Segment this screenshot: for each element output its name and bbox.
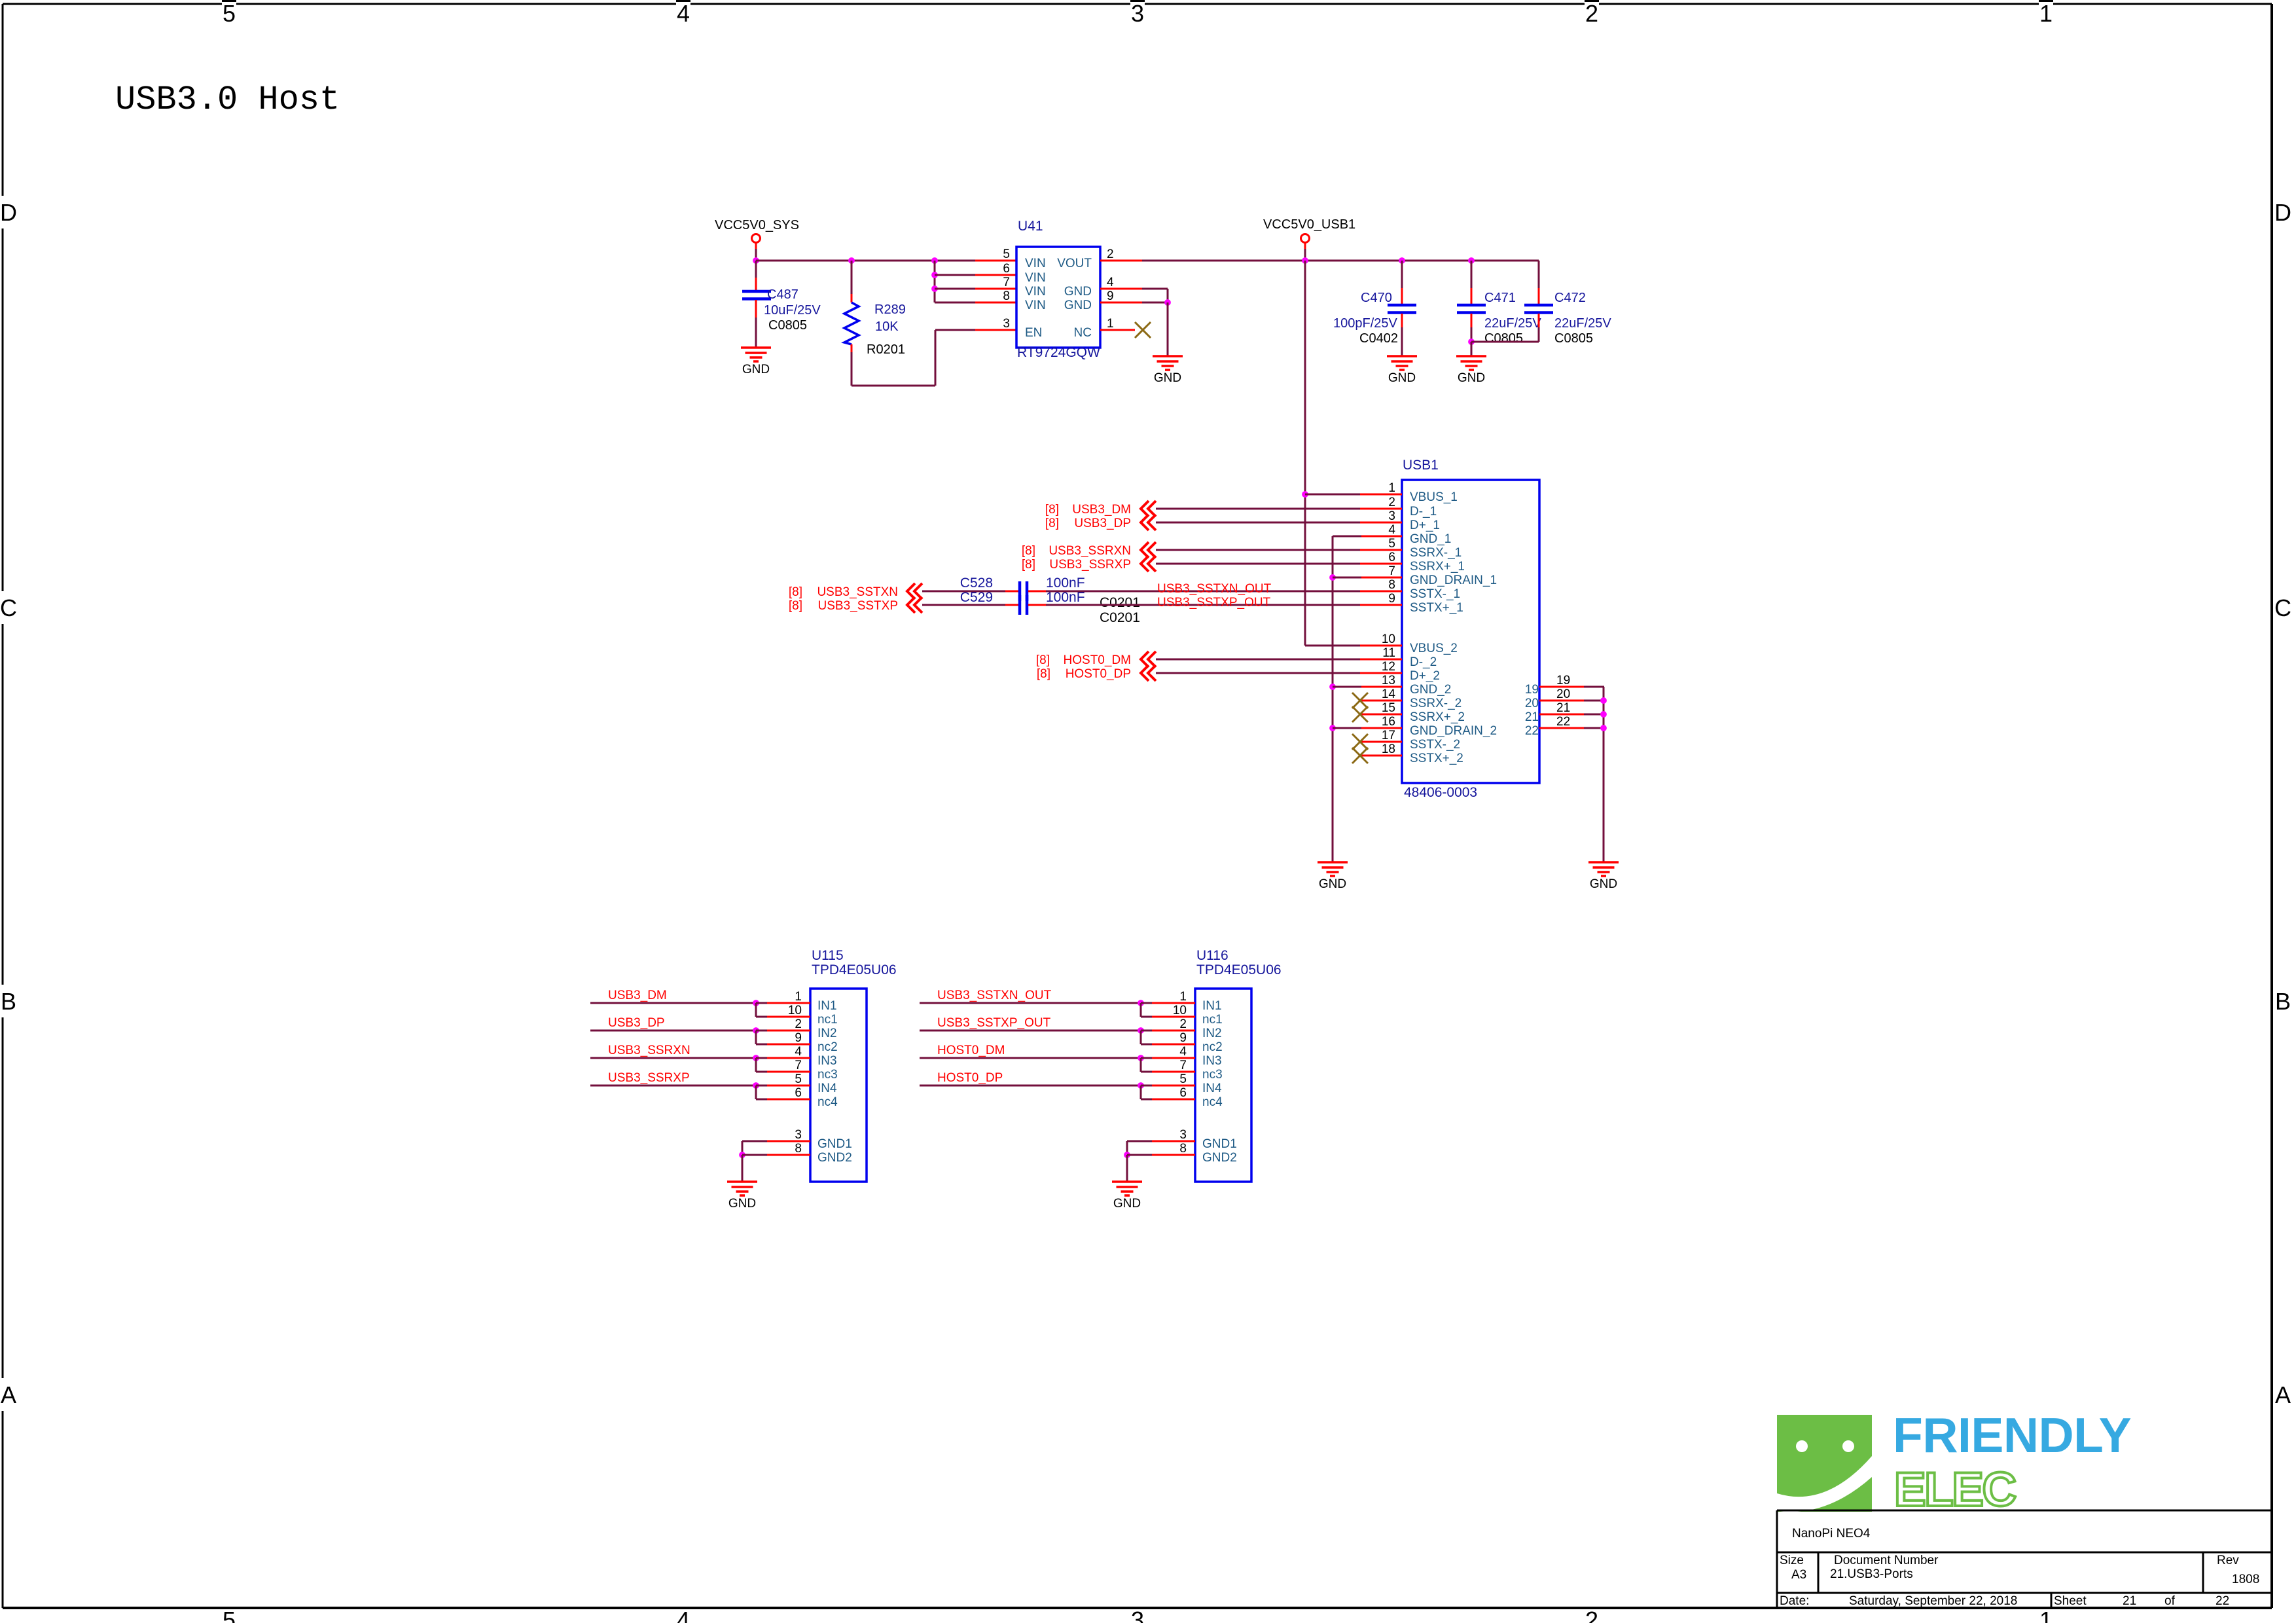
svg-text:GND: GND xyxy=(728,1197,756,1211)
svg-text:4: 4 xyxy=(1388,523,1395,537)
wire to EN pin xyxy=(935,329,977,331)
USB1 pin 16 stub xyxy=(1360,727,1402,729)
wire USB3_SSTXP_OUT to USB1 pin9 xyxy=(1046,604,1361,606)
svg-text:8: 8 xyxy=(1388,578,1395,592)
wire shield pin 20 xyxy=(1584,700,1604,702)
junction USB3_SSRXN xyxy=(753,1055,759,1061)
USB1 pin 12 stub xyxy=(1360,672,1402,674)
C470 top pin stub xyxy=(1401,288,1403,304)
svg-text:1: 1 xyxy=(1179,990,1187,1004)
svg-text:USB3_DM: USB3_DM xyxy=(1072,503,1131,517)
svg-text:C472: C472 xyxy=(1554,291,1586,305)
off-page connector USB3_SSTXP xyxy=(907,597,922,613)
border row gap xyxy=(0,196,18,228)
svg-text:GND_2: GND_2 xyxy=(1410,683,1451,697)
wire R289 to EN horizontal xyxy=(852,385,935,387)
U41 pin 5 stub xyxy=(975,260,1016,262)
svg-text:HOST0_DP: HOST0_DP xyxy=(1066,667,1131,681)
USB1 pin 22 stub xyxy=(1539,727,1584,729)
capacitor C470 xyxy=(1388,305,1416,313)
wire to R289 xyxy=(851,261,853,294)
svg-text:7: 7 xyxy=(1179,1059,1187,1072)
svg-text:VIN: VIN xyxy=(1025,299,1046,312)
svg-text:22: 22 xyxy=(2215,1594,2229,1608)
svg-text:1: 1 xyxy=(1388,481,1395,495)
wire U116 to ground xyxy=(1126,1155,1128,1182)
U115 pin 10 stub xyxy=(767,1016,810,1018)
wire VCC5V0_USB1 vertical to VBUS xyxy=(1304,261,1306,646)
wire to GND_2 xyxy=(1333,686,1361,688)
ground GND under U115 xyxy=(727,1182,757,1195)
svg-text:C0805: C0805 xyxy=(1554,331,1593,346)
resistor R289 xyxy=(844,302,859,344)
svg-text:1: 1 xyxy=(2039,0,2053,27)
svg-text:SSRX+_2: SSRX+_2 xyxy=(1410,710,1465,724)
svg-text:4: 4 xyxy=(1179,1045,1187,1059)
wire to VBUS_1 xyxy=(1305,494,1361,496)
USB1 pin 8 stub xyxy=(1360,591,1402,593)
junction shield 21 xyxy=(1600,711,1607,718)
junction GND_DRAIN_1 xyxy=(1329,574,1336,581)
junction USB3_SSTXN_OUT xyxy=(1138,1000,1144,1006)
wire USB3_SSTXP to C529 xyxy=(922,604,1005,606)
ESD diode U115 body xyxy=(810,989,867,1182)
svg-text:VIN: VIN xyxy=(1025,257,1046,270)
U41 pin 6 stub xyxy=(975,274,1016,276)
svg-text:nc3: nc3 xyxy=(1202,1068,1223,1082)
USB1 pin 14 stub xyxy=(1360,700,1402,702)
FriendlyElec logo face xyxy=(1777,1415,1872,1512)
wire HOST0_DM to U116 xyxy=(920,1057,1141,1059)
svg-text:GND1: GND1 xyxy=(817,1137,852,1151)
svg-text:C529: C529 xyxy=(960,590,993,605)
R289 bottom pin stub xyxy=(851,344,853,352)
junction USB3_DM xyxy=(753,1000,759,1006)
svg-text:5: 5 xyxy=(1003,247,1010,261)
U41 pin 2 VOUT stub xyxy=(1100,260,1142,262)
wire C471 bottom xyxy=(1471,327,1473,342)
svg-text:3: 3 xyxy=(1179,1128,1187,1142)
wire to nc4 xyxy=(756,1099,768,1101)
U116 pin 4 stub xyxy=(1152,1057,1195,1059)
svg-text:9: 9 xyxy=(1388,592,1395,606)
wire to nc1 xyxy=(1141,1016,1153,1018)
svg-text:IN2: IN2 xyxy=(817,1027,837,1040)
op-amp U41 body RT9724GQW xyxy=(1016,247,1100,348)
svg-text:[8]: [8] xyxy=(1045,503,1059,517)
svg-text:C: C xyxy=(2274,594,2291,621)
ground GND under USB1 right xyxy=(1588,862,1619,876)
svg-text:D+_2: D+_2 xyxy=(1410,669,1440,683)
svg-text:VBUS_1: VBUS_1 xyxy=(1410,490,1458,504)
svg-text:21: 21 xyxy=(1556,701,1570,715)
svg-text:4: 4 xyxy=(1107,276,1114,289)
junction VIN branch xyxy=(931,257,938,264)
svg-text:HOST0_DM: HOST0_DM xyxy=(1064,653,1131,667)
wire GND_1 to bus xyxy=(1333,536,1361,538)
svg-text:HOST0_DP: HOST0_DP xyxy=(937,1071,1003,1085)
wire USB3_SSRXP to U115 xyxy=(590,1085,756,1087)
U115 pin 1 stub xyxy=(767,1002,810,1004)
U41 pin 7 stub xyxy=(975,288,1016,290)
svg-text:C: C xyxy=(0,594,17,621)
svg-text:A3: A3 xyxy=(1791,1568,1806,1582)
U41 pin 4 GND stub xyxy=(1100,288,1142,290)
svg-text:GND: GND xyxy=(742,363,770,376)
svg-text:GND: GND xyxy=(1590,877,1617,891)
svg-text:A: A xyxy=(2275,1381,2291,1408)
U116 pin 3 stub xyxy=(1152,1140,1195,1142)
U116 pin 2 stub xyxy=(1152,1030,1195,1032)
USB1 pin 6 stub xyxy=(1360,563,1402,565)
wire to GND_DRAIN_2 xyxy=(1333,727,1361,729)
USB1 pin 11 stub xyxy=(1360,659,1402,661)
svg-text:C471: C471 xyxy=(1484,291,1516,305)
C487 bottom pin stub xyxy=(755,300,757,318)
USB1 pin 21 stub xyxy=(1539,714,1584,716)
ground GND under C470 xyxy=(1387,356,1417,370)
svg-text:IN4: IN4 xyxy=(817,1082,837,1095)
svg-text:8: 8 xyxy=(795,1142,802,1156)
svg-text:VIN: VIN xyxy=(1025,271,1046,285)
wire to C470 xyxy=(1401,261,1403,288)
svg-text:19: 19 xyxy=(1525,683,1539,697)
svg-text:22: 22 xyxy=(1525,724,1539,738)
off-page connector USB3_SSRXN xyxy=(1141,542,1156,558)
wire USB3_SSTXP_OUT to U116 xyxy=(920,1030,1141,1032)
svg-text:[8]: [8] xyxy=(789,599,802,613)
svg-text:USB3_SSRXP: USB3_SSRXP xyxy=(1049,558,1131,572)
svg-text:3: 3 xyxy=(1003,317,1010,331)
junction VCC5V0_USB1 on VOUT rail xyxy=(1302,257,1308,264)
power pin stub xyxy=(1304,242,1306,249)
svg-text:22uF/25V: 22uF/25V xyxy=(1484,316,1541,331)
wire to IN1 xyxy=(1141,1002,1153,1004)
svg-text:D: D xyxy=(2274,199,2291,226)
svg-text:9: 9 xyxy=(1107,289,1114,303)
off-page connector USB3_SSRXP xyxy=(1141,556,1156,572)
wire C470 to GND xyxy=(1401,327,1403,356)
capacitor C528 xyxy=(1020,581,1027,601)
wire to pin 7 xyxy=(935,288,977,290)
wire to nc1 xyxy=(756,1016,768,1018)
U115 pin 4 stub xyxy=(767,1057,810,1059)
no-connect X xyxy=(1352,748,1368,763)
no-connect X xyxy=(1352,706,1368,722)
U116 pin 1 stub xyxy=(1152,1002,1195,1004)
svg-text:FRIENDLY: FRIENDLY xyxy=(1893,1408,2131,1463)
svg-text:U41: U41 xyxy=(1018,219,1043,234)
svg-text:USB1: USB1 xyxy=(1403,458,1439,473)
svg-text:1808: 1808 xyxy=(2232,1573,2259,1586)
svg-text:USB3_SSRXP: USB3_SSRXP xyxy=(608,1071,690,1085)
ground GND under USB1 left xyxy=(1318,862,1348,876)
svg-text:11: 11 xyxy=(1382,646,1395,660)
capacitor C487 xyxy=(742,291,771,299)
USB1 pin 7 stub xyxy=(1360,577,1402,579)
svg-text:C470: C470 xyxy=(1361,291,1392,305)
wire to nc2 xyxy=(756,1044,768,1046)
wire to nc2 xyxy=(1141,1044,1153,1046)
svg-text:6: 6 xyxy=(1388,551,1395,564)
junction U115 GND xyxy=(739,1152,745,1158)
svg-text:Document Number: Document Number xyxy=(1834,1554,1939,1567)
svg-text:nc1: nc1 xyxy=(817,1013,838,1027)
USB1 pin 4 stub xyxy=(1360,536,1402,538)
svg-text:SSTX-_2: SSTX-_2 xyxy=(1410,738,1460,752)
svg-text:4: 4 xyxy=(677,1607,690,1623)
junction shield 22 xyxy=(1600,725,1607,731)
U116 pin 8 stub xyxy=(1152,1154,1195,1156)
C487 top pin stub xyxy=(755,278,757,291)
svg-text:nc4: nc4 xyxy=(817,1095,838,1109)
wire USB3_SSTXN to C528 xyxy=(922,591,1005,593)
U116 pin 5 stub xyxy=(1152,1085,1195,1087)
svg-text:GND2: GND2 xyxy=(817,1151,852,1165)
junction shield 20 xyxy=(1600,697,1607,704)
svg-text:4: 4 xyxy=(795,1045,802,1059)
U115 pin 3 stub xyxy=(767,1140,810,1142)
USB1 pin 13 stub xyxy=(1360,686,1402,688)
svg-text:C0805: C0805 xyxy=(1484,331,1523,346)
svg-text:IN3: IN3 xyxy=(1202,1054,1222,1068)
svg-text:100nF: 100nF xyxy=(1046,590,1085,605)
USB1 pin 17 stub xyxy=(1360,741,1402,743)
no-connect X on NC pin xyxy=(1135,322,1151,338)
svg-text:HOST0_DM: HOST0_DM xyxy=(937,1044,1005,1057)
wire branch to nc4 xyxy=(1140,1085,1142,1099)
wire C472 to C471 node xyxy=(1471,341,1539,343)
svg-text:IN4: IN4 xyxy=(1202,1082,1222,1095)
svg-text:IN1: IN1 xyxy=(817,999,837,1013)
wire C471 to GND xyxy=(1471,342,1473,356)
svg-text:8: 8 xyxy=(1003,289,1010,303)
svg-text:[8]: [8] xyxy=(1037,667,1050,681)
svg-text:GND: GND xyxy=(1064,285,1092,299)
svg-text:VBUS_2: VBUS_2 xyxy=(1410,642,1458,655)
svg-text:VIN: VIN xyxy=(1025,285,1046,299)
ground GND under U116 xyxy=(1112,1182,1142,1195)
svg-text:10uF/25V: 10uF/25V xyxy=(764,303,821,318)
svg-text:USB3.0 Host: USB3.0 Host xyxy=(115,81,340,119)
wire branch to nc1 xyxy=(755,1003,757,1017)
svg-text:10: 10 xyxy=(1173,1004,1187,1017)
off-page connector USB3_SSTXN xyxy=(907,583,922,599)
junction VCC5V0_SYS node xyxy=(753,257,759,264)
svg-text:USB3_DP: USB3_DP xyxy=(1074,517,1131,530)
svg-text:6: 6 xyxy=(1003,262,1010,276)
USB1 pin 2 stub xyxy=(1360,508,1402,510)
svg-text:VCC5V0_SYS: VCC5V0_SYS xyxy=(715,218,799,232)
junction USB3_DP xyxy=(753,1027,759,1034)
svg-text:5: 5 xyxy=(795,1072,802,1086)
svg-text:18: 18 xyxy=(1382,742,1395,756)
svg-text:U116: U116 xyxy=(1196,948,1229,963)
title block frame xyxy=(1777,1510,2272,1608)
svg-text:3: 3 xyxy=(1131,0,1144,27)
svg-text:R289: R289 xyxy=(874,302,906,317)
svg-text:48406-0003: 48406-0003 xyxy=(1404,785,1477,800)
svg-text:[8]: [8] xyxy=(1022,544,1035,558)
svg-text:5: 5 xyxy=(1179,1072,1187,1086)
C471 bottom pin stub xyxy=(1471,314,1473,327)
svg-text:7: 7 xyxy=(1003,276,1010,289)
wire HOST0_DM to USB1 pin11 xyxy=(1156,659,1361,661)
svg-text:3: 3 xyxy=(795,1128,802,1142)
wire U115 to ground xyxy=(742,1155,744,1182)
wire USB3_SSRXP to USB1 pin6 xyxy=(1156,563,1361,565)
wire C472 bottom xyxy=(1538,327,1540,342)
wire VCC5V0_USB1 down xyxy=(1304,249,1306,261)
svg-text:GND: GND xyxy=(1064,299,1092,312)
svg-text:USB3_SSTXP_OUT: USB3_SSTXP_OUT xyxy=(1157,596,1271,610)
svg-text:D-_1: D-_1 xyxy=(1410,505,1437,519)
wire to nc3 xyxy=(756,1071,768,1073)
svg-text:D-_2: D-_2 xyxy=(1410,655,1437,669)
svg-text:21: 21 xyxy=(2123,1594,2136,1608)
off-page connector USB3_DM xyxy=(1141,501,1156,517)
junction R289 top xyxy=(848,257,855,264)
U116 pin 10 stub xyxy=(1152,1016,1195,1018)
U115 pin 2 stub xyxy=(767,1030,810,1032)
svg-text:D: D xyxy=(0,199,17,226)
border column tick xyxy=(676,0,691,6)
svg-text:7: 7 xyxy=(1388,564,1395,578)
wire USB3_SSRXN to USB1 pin5 xyxy=(1156,549,1361,551)
svg-text:100nF: 100nF xyxy=(1046,575,1085,591)
svg-text:C487: C487 xyxy=(767,287,798,302)
svg-text:B: B xyxy=(2275,988,2291,1015)
svg-text:7: 7 xyxy=(795,1059,802,1072)
svg-text:21: 21 xyxy=(1525,710,1539,724)
no-connect X xyxy=(1352,693,1368,708)
svg-text:C0805: C0805 xyxy=(768,318,807,333)
junction HOST0_DM xyxy=(1138,1055,1144,1061)
U116 pin 9 stub xyxy=(1152,1044,1195,1046)
wire branch to nc4 xyxy=(755,1085,757,1099)
wire U115 GND vertical xyxy=(742,1141,744,1155)
wire R289 down xyxy=(851,352,853,386)
svg-text:5: 5 xyxy=(223,0,236,27)
svg-text:1: 1 xyxy=(795,990,802,1004)
svg-text:U115: U115 xyxy=(812,948,844,963)
svg-text:2: 2 xyxy=(1585,0,1598,27)
svg-text:1: 1 xyxy=(2039,1607,2053,1623)
wire to IN4 xyxy=(756,1085,768,1087)
wire USB3_SSRXN to U115 xyxy=(590,1057,756,1059)
USB1 pin 15 stub xyxy=(1360,714,1402,716)
wire U115 GND1 xyxy=(742,1140,768,1142)
svg-text:B: B xyxy=(1,988,16,1015)
border column tick xyxy=(1130,0,1145,6)
USB1 pin 10 stub xyxy=(1360,645,1402,647)
U115 pin 8 stub xyxy=(767,1154,810,1156)
svg-text:GND2: GND2 xyxy=(1202,1151,1237,1165)
svg-text:USB3_DP: USB3_DP xyxy=(608,1016,665,1030)
svg-text:2: 2 xyxy=(1388,496,1395,509)
wire USB3_DP to U115 xyxy=(590,1030,756,1032)
wire to IN3 xyxy=(756,1057,768,1059)
border row gap xyxy=(0,1378,18,1411)
svg-text:IN2: IN2 xyxy=(1202,1027,1222,1040)
svg-text:22uF/25V: 22uF/25V xyxy=(1554,316,1611,331)
svg-text:2: 2 xyxy=(795,1017,802,1031)
wire pin9 to GND xyxy=(1142,302,1168,304)
svg-text:[8]: [8] xyxy=(1036,653,1050,667)
border column tick xyxy=(222,0,236,6)
C472 top pin stub xyxy=(1538,288,1540,304)
wire U41 GND down xyxy=(1167,302,1169,356)
U41 pin 9 GND stub xyxy=(1100,302,1142,304)
U41 pin 1 NC stub xyxy=(1100,329,1135,331)
ground GND under U41 xyxy=(1153,356,1183,370)
svg-text:NanoPi NEO4: NanoPi NEO4 xyxy=(1792,1527,1871,1541)
wire USB1 ground bus vertical xyxy=(1332,536,1334,862)
svg-text:R0201: R0201 xyxy=(867,342,905,357)
junction GND_DRAIN_2 xyxy=(1329,725,1336,731)
wire USB3_DM to U115 xyxy=(590,1002,756,1004)
wire to C471 xyxy=(1471,261,1473,288)
ground GND under C471 xyxy=(1456,356,1486,370)
wire EN vertical xyxy=(935,330,937,386)
border row gap xyxy=(0,591,18,624)
svg-text:Size: Size xyxy=(1780,1554,1804,1567)
svg-text:3: 3 xyxy=(1131,1607,1144,1623)
wire branch to nc3 xyxy=(1140,1058,1142,1072)
wire branch to nc2 xyxy=(1140,1030,1142,1044)
svg-text:10: 10 xyxy=(1382,632,1395,646)
border column tick xyxy=(1585,0,1599,6)
junction pin 7 xyxy=(931,285,938,292)
USB1 pin 3 stub xyxy=(1360,522,1402,524)
C528 right pin stub xyxy=(1028,591,1046,593)
svg-text:SSRX+_1: SSRX+_1 xyxy=(1410,560,1465,574)
svg-text:6: 6 xyxy=(795,1086,802,1100)
svg-text:5: 5 xyxy=(1388,537,1395,551)
wire to nc4 xyxy=(1141,1099,1153,1101)
wire pin4 to GND xyxy=(1142,288,1168,290)
svg-text:GND_DRAIN_2: GND_DRAIN_2 xyxy=(1410,724,1497,738)
capacitor C472 xyxy=(1524,305,1553,313)
svg-text:nc2: nc2 xyxy=(817,1040,838,1054)
svg-text:16: 16 xyxy=(1382,715,1395,729)
junction C471 C472 bottom node xyxy=(1468,338,1475,345)
wire to IN1 xyxy=(756,1002,768,1004)
wire U116 GND2 xyxy=(1127,1154,1153,1156)
svg-text:of: of xyxy=(2164,1594,2176,1608)
svg-text:SSTX+_1: SSTX+_1 xyxy=(1410,601,1463,615)
wire USB3_DM to USB1 pin2 xyxy=(1156,508,1361,510)
off-page connector HOST0_DP xyxy=(1141,665,1156,681)
svg-text:13: 13 xyxy=(1382,674,1395,687)
svg-text:Saturday, September 22, 2018: Saturday, September 22, 2018 xyxy=(1849,1594,2017,1608)
capacitor C529 xyxy=(1020,595,1027,615)
wire to IN4 xyxy=(1141,1085,1153,1087)
wire shield bus vertical xyxy=(1603,687,1605,862)
junction pin 6 xyxy=(931,272,938,278)
svg-text:nc4: nc4 xyxy=(1202,1095,1223,1109)
svg-text:10K: 10K xyxy=(875,319,899,334)
svg-text:C0201: C0201 xyxy=(1100,595,1140,610)
svg-text:GND: GND xyxy=(1154,371,1181,385)
off-page connector USB3_DP xyxy=(1141,515,1156,530)
U115 pin 5 stub xyxy=(767,1085,810,1087)
svg-text:USB3_DM: USB3_DM xyxy=(608,989,667,1002)
junction C471 top xyxy=(1468,257,1475,264)
svg-text:8: 8 xyxy=(1179,1142,1187,1156)
wire HOST0_DP to U116 xyxy=(920,1085,1141,1087)
svg-text:SSRX-_2: SSRX-_2 xyxy=(1410,697,1462,710)
